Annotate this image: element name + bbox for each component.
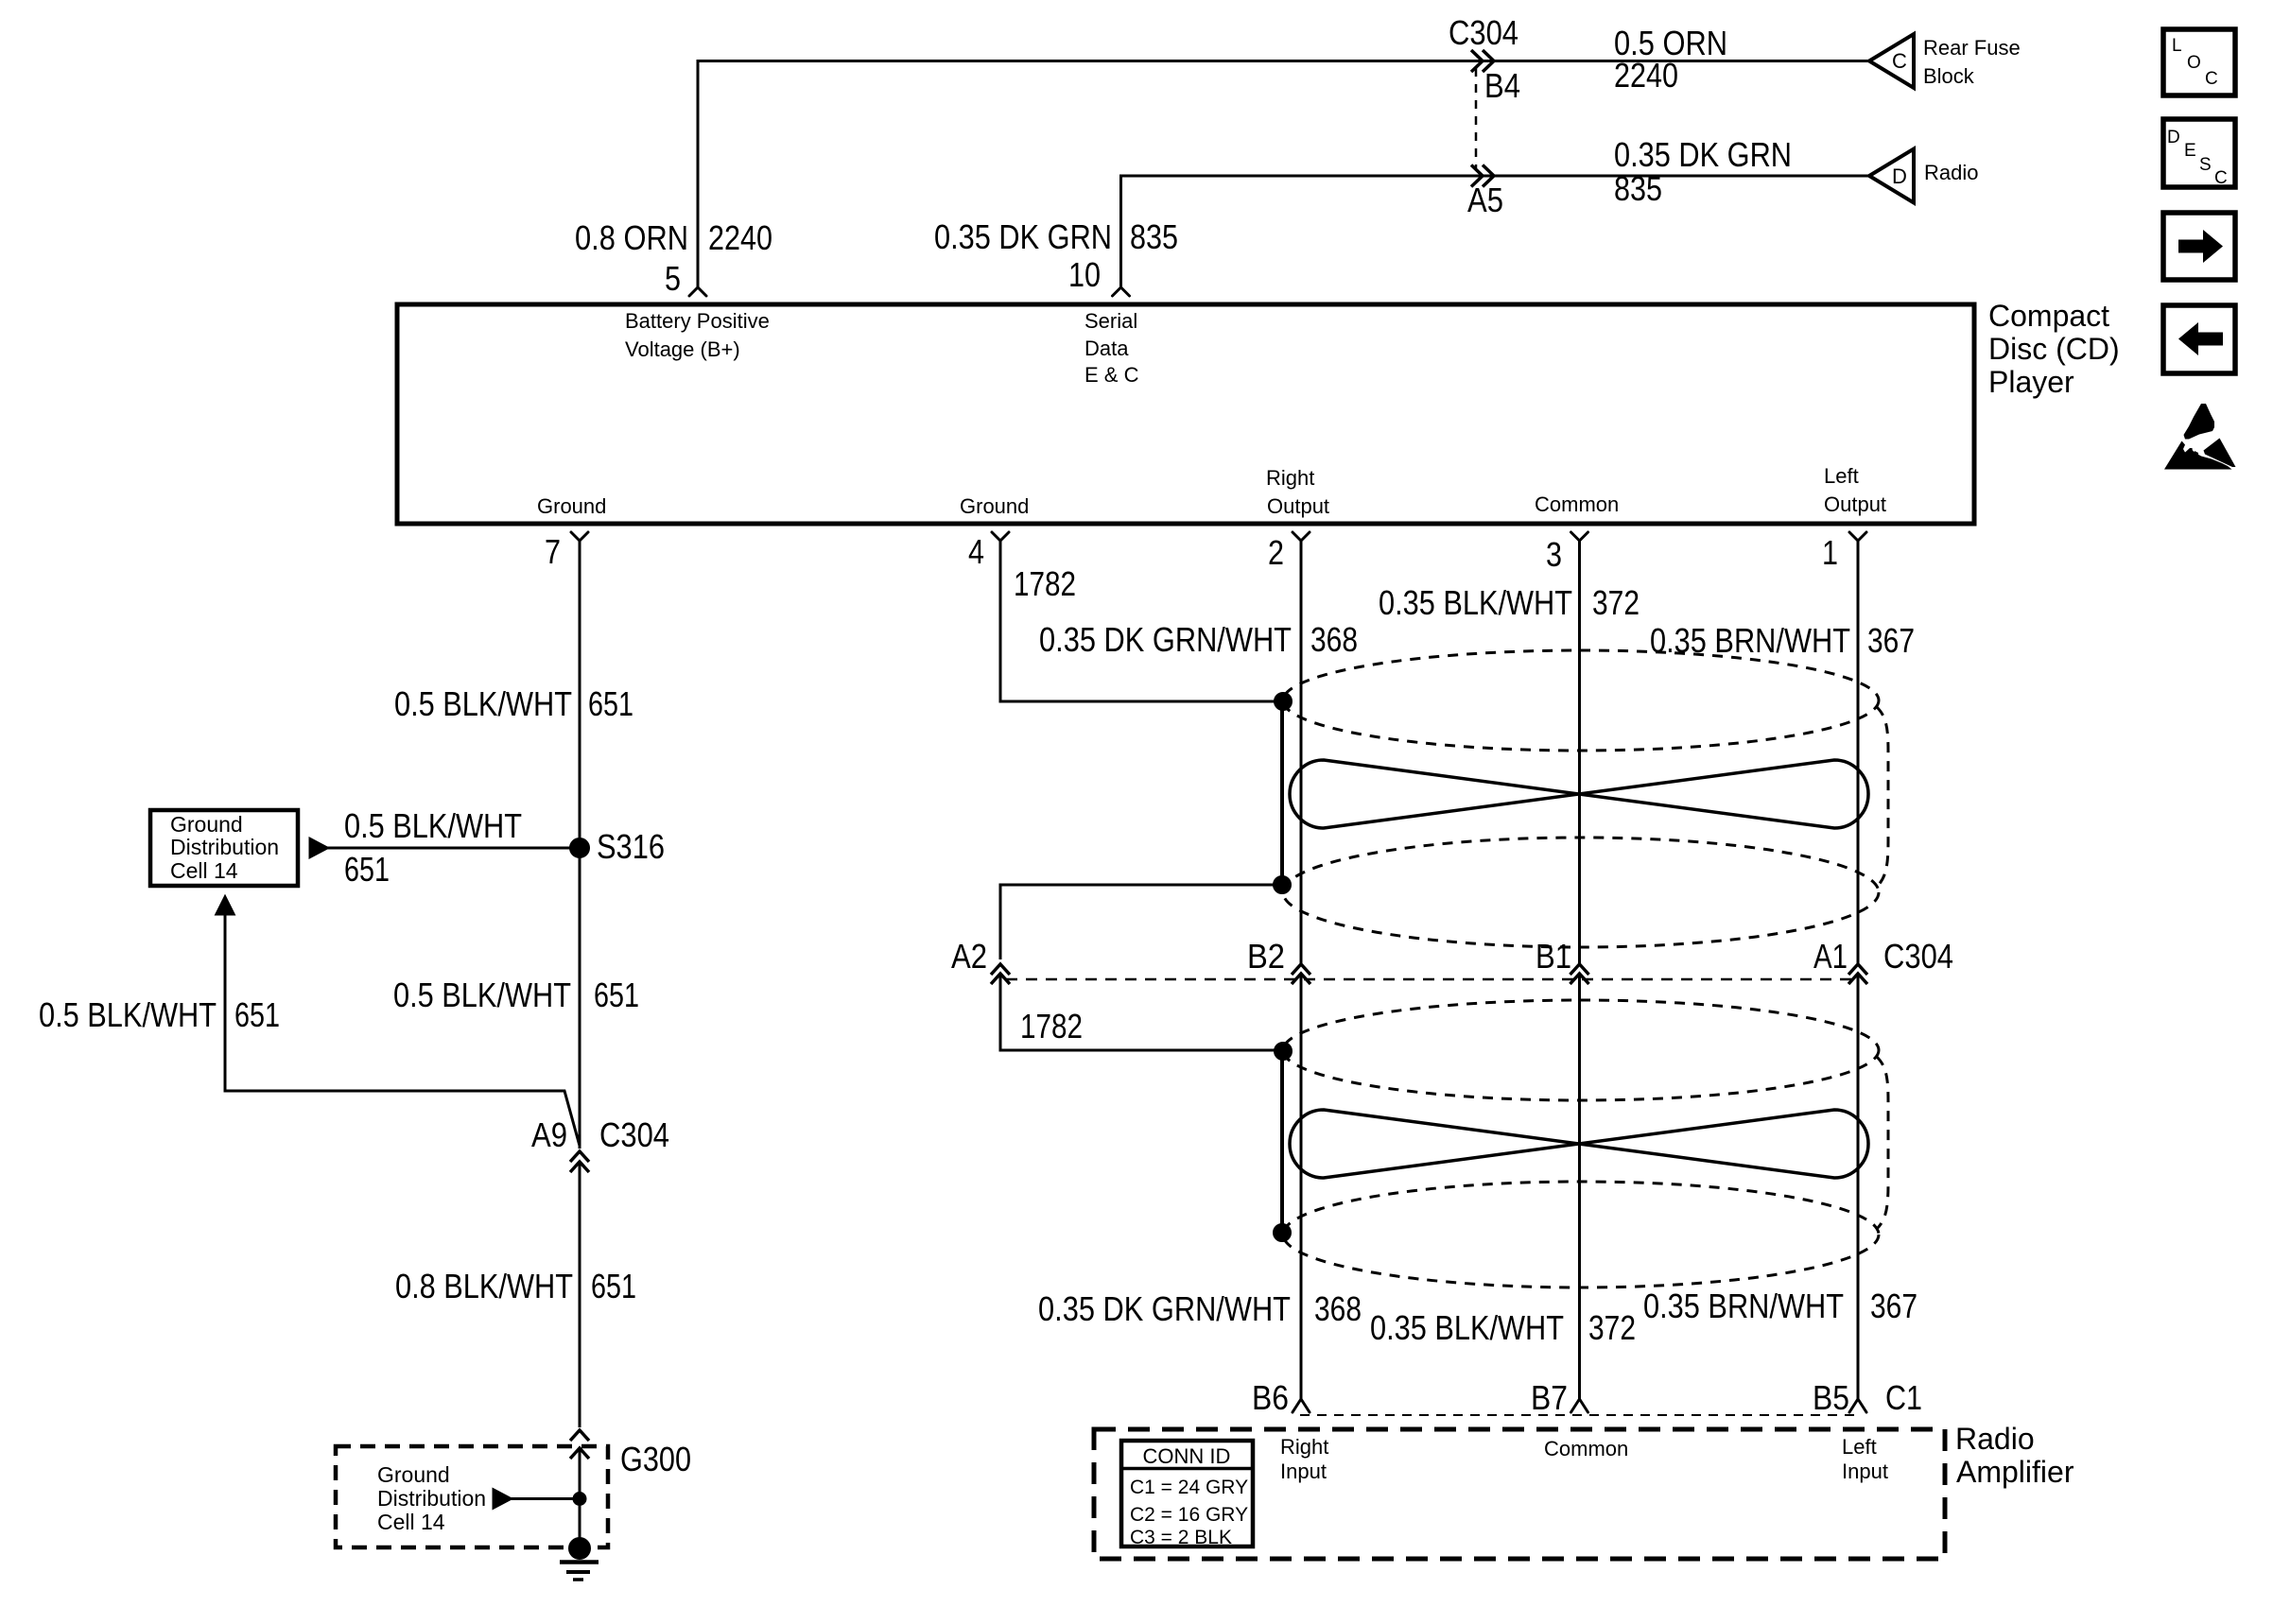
ground symbol bars <box>560 1560 599 1564</box>
icon next-arrow box <box>2163 213 2235 280</box>
svg-text:0.8 BLK/WHT: 0.8 BLK/WHT <box>395 1267 573 1305</box>
connector G300 chevrons <box>570 1430 589 1441</box>
G300 dashed box <box>336 1446 608 1547</box>
svg-text:Ground: Ground <box>960 494 1029 518</box>
radio amplifier dashed box <box>1094 1429 1945 1559</box>
svg-text:0.5 BLK/WHT: 0.5 BLK/WHT <box>394 684 572 723</box>
svg-text:Serial: Serial <box>1084 309 1137 333</box>
svg-text:0.35 BLK/WHT: 0.35 BLK/WHT <box>1379 583 1572 622</box>
svg-text:Left: Left <box>1842 1435 1877 1459</box>
wire pin 4 ground to shield drain <box>1000 541 1275 701</box>
svg-text:C304: C304 <box>1883 937 1953 976</box>
svg-text:651: 651 <box>591 1267 636 1305</box>
svg-text:372: 372 <box>1588 1308 1636 1347</box>
svg-text:Common: Common <box>1535 492 1619 516</box>
wire pin 1 left output down to B5 <box>1857 541 1860 964</box>
svg-text:D: D <box>1892 164 1907 188</box>
svg-text:368: 368 <box>1314 1289 1362 1328</box>
svg-text:B2: B2 <box>1247 937 1285 976</box>
svg-text:C: C <box>2214 168 2228 188</box>
svg-text:S316: S316 <box>597 827 665 866</box>
svg-text:Ground: Ground <box>377 1462 450 1487</box>
svg-text:0.35 DK GRN/WHT: 0.35 DK GRN/WHT <box>1038 1289 1291 1328</box>
dashed link between B4 and A5 <box>1475 68 1478 168</box>
svg-text:835: 835 <box>1130 217 1178 256</box>
svg-text:0.35 BLK/WHT: 0.35 BLK/WHT <box>1370 1308 1564 1347</box>
svg-text:4: 4 <box>968 532 984 571</box>
junction dot on ground wire <box>574 1494 585 1505</box>
shield upper group: lower ellipse <box>1283 838 1879 947</box>
wire arrow to ground point <box>509 1497 580 1500</box>
svg-text:Output: Output <box>1267 494 1329 518</box>
svg-text:Output: Output <box>1824 492 1886 516</box>
svg-text:835: 835 <box>1614 169 1662 208</box>
arrow ground distribution (lower) <box>494 1490 511 1508</box>
pin 5 fork <box>689 287 706 296</box>
svg-text:C1 = 24 GRY: C1 = 24 GRY <box>1130 1477 1248 1498</box>
svg-text:0.5 BLK/WHT: 0.5 BLK/WHT <box>344 806 522 845</box>
icon DESC box <box>2163 119 2235 187</box>
svg-text:372: 372 <box>1592 583 1640 622</box>
wire drain to A2 <box>1000 885 1282 959</box>
svg-text:Block: Block <box>1923 64 1975 88</box>
svg-text:367: 367 <box>1870 1287 1917 1325</box>
pin 10 fork <box>1113 287 1130 296</box>
shield upper group: upper ellipse <box>1283 650 1879 751</box>
svg-text:Player: Player <box>1988 365 2074 399</box>
shield drain dot lower group bottom <box>1275 1225 1291 1241</box>
svg-text:2240: 2240 <box>1614 56 1678 95</box>
svg-text:Cell 14: Cell 14 <box>170 858 238 883</box>
shield drain dot upper group top <box>1275 694 1292 710</box>
wire pin 7 ground down to A9 <box>579 541 581 1149</box>
svg-text:Ground: Ground <box>537 494 606 518</box>
svg-text:0.35 DK GRN: 0.35 DK GRN <box>1614 135 1792 174</box>
fork B6 at radio amplifier <box>1293 1399 1310 1412</box>
wire A9 to G300 <box>579 1162 581 1427</box>
svg-text:Data: Data <box>1084 337 1129 360</box>
svg-text:Amplifier: Amplifier <box>1956 1455 2074 1489</box>
svg-text:S: S <box>2199 155 2212 175</box>
wire left branch down and right to A9 <box>225 913 580 1146</box>
pin 7 fork <box>571 532 588 541</box>
svg-text:0.35 BRN/WHT: 0.35 BRN/WHT <box>1643 1287 1844 1325</box>
splice S316 dot <box>571 839 589 857</box>
shield lower group: lower ellipse <box>1283 1182 1879 1287</box>
wire serial data from pin 10 up and right <box>1121 176 1870 287</box>
svg-text:Common: Common <box>1544 1437 1628 1460</box>
svg-text:B1: B1 <box>1536 937 1571 976</box>
svg-text:A9: A9 <box>531 1115 567 1154</box>
svg-text:2240: 2240 <box>708 218 772 257</box>
icon back-arrow box <box>2163 305 2235 373</box>
svg-text:E & C: E & C <box>1084 363 1139 387</box>
shield drain dot upper group bottom <box>1275 877 1291 893</box>
ground G300 dot <box>570 1539 590 1559</box>
svg-text:C304: C304 <box>1449 13 1518 52</box>
svg-text:Distribution: Distribution <box>170 835 279 859</box>
svg-text:Voltage (B+): Voltage (B+) <box>625 337 740 361</box>
icon next-arrow glyph <box>2178 230 2223 263</box>
svg-text:C: C <box>1892 49 1907 73</box>
svg-text:1: 1 <box>1822 533 1838 572</box>
icon ESD triangle <box>2184 404 2215 440</box>
svg-text:C1: C1 <box>1885 1378 1922 1417</box>
twisted pair upper group bowtie <box>1290 760 1868 828</box>
svg-text:651: 651 <box>344 850 390 889</box>
svg-text:Input: Input <box>1842 1460 1888 1483</box>
shield lower group: right edge <box>1877 1057 1888 1229</box>
svg-text:O: O <box>2187 53 2201 73</box>
svg-text:Rear Fuse: Rear Fuse <box>1923 36 2021 60</box>
svg-text:A2: A2 <box>951 937 987 976</box>
conn id table header underline <box>1121 1467 1253 1471</box>
svg-text:367: 367 <box>1867 621 1915 660</box>
svg-text:7: 7 <box>545 532 561 571</box>
svg-text:5: 5 <box>665 259 681 298</box>
shield lower group: upper ellipse <box>1283 1000 1879 1100</box>
connector C304 A2 chevrons <box>991 964 1010 975</box>
arrow up to ground distribution box (left branch) <box>217 897 234 914</box>
svg-text:0.5 BLK/WHT: 0.5 BLK/WHT <box>393 976 571 1014</box>
svg-text:0.35 BRN/WHT: 0.35 BRN/WHT <box>1650 621 1850 660</box>
shield upper group: right edge <box>1877 707 1888 887</box>
svg-text:C3 = 2 BLK: C3 = 2 BLK <box>1130 1527 1232 1548</box>
svg-text:C: C <box>2205 69 2218 89</box>
shield drain dot lower group top <box>1275 1044 1292 1060</box>
svg-text:651: 651 <box>594 976 639 1014</box>
svg-text:CONN ID: CONN ID <box>1143 1444 1231 1468</box>
svg-text:3: 3 <box>1546 535 1562 574</box>
svg-text:D: D <box>2167 128 2180 147</box>
svg-text:2: 2 <box>1268 533 1284 572</box>
wire B2 to B6 <box>1300 974 1303 1399</box>
pin 2 fork <box>1293 532 1310 541</box>
shield drain vertical lower group <box>1280 1051 1284 1233</box>
wire battery positive B+ from pin 5 up and right <box>698 61 1869 288</box>
svg-text:651: 651 <box>234 995 280 1034</box>
svg-text:L: L <box>2172 36 2182 56</box>
arrow from ground distribution box <box>310 839 327 857</box>
conn id table box <box>1121 1441 1253 1546</box>
svg-text:0.35 DK GRN/WHT: 0.35 DK GRN/WHT <box>1039 620 1292 659</box>
svg-text:E: E <box>2184 141 2196 161</box>
svg-text:Distribution: Distribution <box>377 1486 486 1511</box>
svg-text:Disc (CD): Disc (CD) <box>1988 332 2120 366</box>
wire into G300 to ground <box>579 1448 581 1548</box>
pin 1 fork <box>1849 532 1866 541</box>
compact disc player box U1 <box>397 304 1974 524</box>
pin 4 fork <box>992 532 1009 541</box>
connector C304 B2 chevrons <box>1292 964 1310 975</box>
wire A1 to B5 <box>1857 974 1860 1399</box>
svg-text:Right: Right <box>1280 1435 1328 1459</box>
svg-text:1782: 1782 <box>1014 564 1076 603</box>
shield drain vertical upper group <box>1280 701 1284 885</box>
wire pin 3 common down to B7 <box>1578 541 1581 964</box>
triangle connector C to Rear Fuse Block <box>1869 34 1914 88</box>
svg-text:C2 = 16 GRY: C2 = 16 GRY <box>1130 1504 1248 1526</box>
svg-text:Left: Left <box>1824 464 1859 488</box>
connector C304 B4 chevrons on ORN wire <box>1471 50 1483 72</box>
svg-text:Input: Input <box>1280 1460 1327 1483</box>
svg-text:B5: B5 <box>1813 1378 1849 1417</box>
connector C304 A5 chevrons on DK GRN wire <box>1471 165 1483 187</box>
wire pin 2 right output down to B6 <box>1300 541 1303 964</box>
icon back-arrow glyph <box>2178 322 2223 355</box>
svg-text:Radio: Radio <box>1955 1422 2035 1456</box>
svg-text:A1: A1 <box>1813 937 1848 976</box>
svg-text:B7: B7 <box>1531 1378 1568 1417</box>
wire from arrow to S316 <box>325 847 580 850</box>
svg-text:Battery Positive: Battery Positive <box>625 309 770 333</box>
svg-text:C304: C304 <box>599 1115 669 1154</box>
svg-text:0.8 ORN: 0.8 ORN <box>575 218 688 257</box>
svg-text:B6: B6 <box>1252 1378 1289 1417</box>
connector C1 dashed line at radio amplifier <box>1300 1414 1859 1416</box>
ground distribution cell 14 box (upper) <box>150 810 298 886</box>
svg-text:Right: Right <box>1266 466 1314 490</box>
fork B7 at radio amplifier <box>1571 1399 1588 1412</box>
svg-text:G300: G300 <box>620 1440 691 1478</box>
connector C304 B1 chevrons <box>1570 964 1589 975</box>
svg-text:0.5 BLK/WHT: 0.5 BLK/WHT <box>39 995 217 1034</box>
svg-text:Cell 14: Cell 14 <box>377 1510 445 1534</box>
icon LOC box <box>2163 29 2235 95</box>
svg-text:651: 651 <box>588 684 633 723</box>
svg-text:368: 368 <box>1310 620 1358 659</box>
connector A9 C304 chevrons <box>570 1151 589 1162</box>
connector C304 dashed line <box>1006 978 1860 981</box>
svg-text:10: 10 <box>1068 255 1101 294</box>
svg-text:1782: 1782 <box>1020 1007 1083 1045</box>
svg-text:Compact: Compact <box>1988 299 2109 333</box>
svg-text:A5: A5 <box>1467 181 1503 219</box>
wire B1 to B7 <box>1578 974 1581 1399</box>
pin 3 fork <box>1571 532 1588 541</box>
fork B5 at radio amplifier <box>1849 1399 1866 1412</box>
wire A2 to lower shield drain 1782 <box>1000 974 1275 1050</box>
svg-text:B4: B4 <box>1484 66 1520 105</box>
svg-text:0.35 DK GRN: 0.35 DK GRN <box>934 217 1112 256</box>
svg-text:Radio: Radio <box>1924 161 1978 184</box>
triangle connector D to Radio <box>1869 149 1914 203</box>
connector C304 A1 chevrons <box>1848 964 1867 975</box>
twisted pair lower group bowtie <box>1290 1110 1868 1178</box>
svg-text:Ground: Ground <box>170 812 243 837</box>
